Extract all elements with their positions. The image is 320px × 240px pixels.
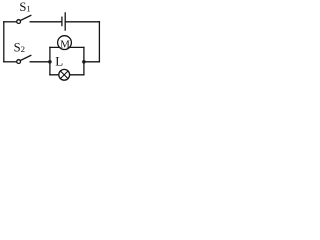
svg-text:S1: S1 [19,0,30,14]
lamp L circle with cross [59,69,70,80]
wire from battery to top-right corner [65,21,99,23]
wire bottom-left from left rail to switch S2 [4,61,17,63]
wire from S1 to battery [30,21,62,23]
svg-text:S2: S2 [14,40,25,54]
wire motor branch (top branch) [50,46,84,48]
switch S2 [17,55,31,63]
motor M circle [58,36,72,50]
switch S1 [17,15,31,23]
svg-text:M: M [60,38,70,50]
battery short plate (negative) [61,17,63,25]
wire right rail (vertical) [98,22,100,62]
wire top-left from left rail to switch S1 [4,21,17,23]
junction node left [48,60,52,64]
battery long plate (positive) [64,13,66,30]
svg-text:L: L [55,53,63,68]
junction node right [82,60,86,64]
wire from right junction to right rail [84,61,100,63]
wire lamp branch (bottom branch) [50,74,84,76]
wire from S2 to left junction [30,61,50,63]
wire left rail (vertical) [3,22,5,62]
wire parallel-block left vertical [49,47,51,74]
wire parallel-block right vertical [83,47,85,74]
